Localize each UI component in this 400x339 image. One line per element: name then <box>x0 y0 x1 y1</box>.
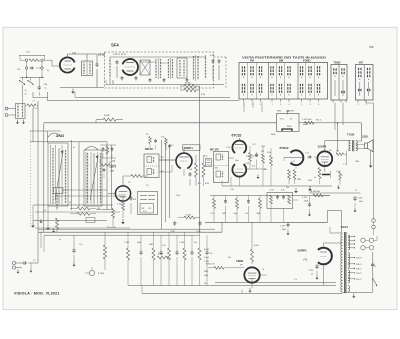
svg-text:125 V: 125 V <box>356 273 362 275</box>
svg-text:SF4: SF4 <box>111 43 119 48</box>
label TU32 <box>347 133 355 137</box>
socket pins <box>361 238 374 250</box>
svg-text:C.138: C.138 <box>280 226 285 228</box>
svg-text:6786: 6786 <box>110 171 114 173</box>
mains transformer TA34 primary <box>341 234 343 292</box>
svg-text:C5: C5 <box>44 210 46 212</box>
V2 grid cluster <box>99 145 116 178</box>
svg-text:C14: C14 <box>141 208 144 210</box>
svg-text:C.13: C.13 <box>226 147 230 149</box>
wire bottom ground bus <box>142 286 343 294</box>
tube V3 50RP1 <box>176 153 192 168</box>
resistor V3 screen <box>195 155 198 186</box>
capacitor V4 a <box>245 153 258 170</box>
label 6.3V <box>210 55 215 57</box>
svg-text:RETRO: RETRO <box>288 111 295 113</box>
svg-text:6,3V: 6,3V <box>210 55 215 57</box>
svg-text:TU32: TU32 <box>347 133 355 137</box>
tube V4a 6TC32 triode <box>232 141 246 153</box>
gang frame 1 <box>48 143 68 206</box>
wire bus heater <box>75 92 230 97</box>
svg-text:50μf: 50μf <box>359 201 363 203</box>
ground gang 1 <box>31 223 35 228</box>
ground gang 3 <box>39 219 42 223</box>
coil L9 <box>109 57 111 84</box>
svg-text:RDL 3: RDL 3 <box>316 120 321 122</box>
svg-text:CM81: CM81 <box>236 259 244 263</box>
svg-text:4.7k: 4.7k <box>143 211 146 213</box>
svg-text:530: 530 <box>97 208 100 210</box>
label FONO <box>303 59 311 63</box>
svg-text:C6: C6 <box>69 202 71 204</box>
svg-text:B.9: B.9 <box>146 134 149 136</box>
label TA34 <box>341 225 348 229</box>
svg-text:4.7k: 4.7k <box>211 213 214 215</box>
loop coil arc 1 <box>48 133 61 137</box>
svg-text:C4: C4 <box>104 150 106 152</box>
svg-text:C.148: C.148 <box>124 242 129 244</box>
tube V2 12E4 <box>115 186 130 201</box>
svg-text:50RP1: 50RP1 <box>298 249 308 253</box>
svg-text:2a: 2a <box>45 88 47 90</box>
svg-text:C8: C8 <box>99 161 101 163</box>
wire gang link top <box>30 131 107 142</box>
resistor R heater 2 <box>180 88 200 92</box>
wire fono drops <box>244 102 262 112</box>
tube V5 6TD32 triode <box>291 150 304 165</box>
wire ant drop <box>22 84 26 103</box>
svg-text:1k: 1k <box>314 177 316 179</box>
FM tuner dashed enclosure SF4 <box>105 52 227 88</box>
resistor V4 b <box>261 147 264 186</box>
svg-text:C.9: C.9 <box>294 279 297 281</box>
label MF19 <box>145 147 153 151</box>
svg-text:C.12: C.12 <box>305 153 309 155</box>
transformer taps <box>348 236 362 281</box>
svg-text:V.3a: V.3a <box>204 156 207 158</box>
wire bus det top <box>210 195 330 197</box>
coil L11 pair <box>169 58 173 79</box>
svg-text:VISTA POSTERIORE DEI TASTI IN: VISTA POSTERIORE DEI TASTI IN BASSO <box>242 56 326 60</box>
resistor gang v <box>112 208 115 226</box>
label page number 769 <box>369 45 374 49</box>
resistor v5 anode 1 <box>288 170 291 185</box>
phono terminal 1 <box>12 261 22 264</box>
wire rf bottom rail <box>60 87 104 89</box>
tube V1b 6T26 triode <box>123 59 139 75</box>
capacitor C148 <box>371 262 377 268</box>
resistor gang 2 <box>70 212 96 215</box>
detector RC network cluster <box>211 196 262 223</box>
label 12SF6 <box>318 145 333 153</box>
band switch inner <box>140 204 154 214</box>
tube V8 CM81 <box>244 267 259 282</box>
svg-text:3135: 3135 <box>362 135 368 139</box>
wire cm81 bottom <box>248 275 267 293</box>
label 50RP1 rect <box>298 249 308 262</box>
tube V4b 6TC32 triode <box>232 164 246 176</box>
resistor B988 <box>157 254 169 260</box>
svg-text:100k: 100k <box>261 146 265 148</box>
capacitor C920 <box>309 264 319 280</box>
label 6T26 <box>98 53 127 57</box>
capacitor C165 <box>170 221 176 233</box>
capacitor C148b <box>353 196 363 212</box>
svg-text:C.128: C.128 <box>302 197 307 199</box>
svg-text:V7b: V7b <box>303 259 308 262</box>
svg-text:B.7: B.7 <box>198 183 201 185</box>
svg-text:1MΩ: 1MΩ <box>149 244 153 246</box>
svg-text:2a: 2a <box>262 269 264 271</box>
svg-text:MF19: MF19 <box>145 147 153 151</box>
tono contacts <box>333 68 346 102</box>
band switch contacts <box>140 195 154 213</box>
svg-text:4.7Ω: 4.7Ω <box>117 204 122 206</box>
svg-text:C29 V1 6T26: C29 V1 6T26 <box>113 54 127 56</box>
wire bus b-plus right end <box>358 123 362 141</box>
svg-text:4a: 4a <box>73 147 75 149</box>
svg-text:T.T.C.: T.T.C. <box>280 119 286 121</box>
resistor V2 grid <box>131 175 148 178</box>
wire left riser 33 <box>33 108 38 142</box>
svg-text:600Ω: 600Ω <box>303 124 308 126</box>
wire transformer top link <box>330 227 343 233</box>
pushbutton table frame <box>239 63 328 100</box>
svg-text:VEDI: VEDI <box>277 111 282 113</box>
coil padder <box>56 194 58 211</box>
resistor V3 plate <box>202 155 205 186</box>
wire v5 grid line <box>284 158 303 162</box>
antenna terminal <box>5 107 15 110</box>
padder trim box <box>86 218 95 223</box>
wire v2 leads <box>108 176 131 194</box>
svg-text:3a: 3a <box>25 94 27 96</box>
svg-text:470: 470 <box>133 199 136 201</box>
resistor 450ohm <box>336 151 347 166</box>
svg-text:C11: C11 <box>161 157 164 159</box>
ground V2 <box>121 219 125 224</box>
svg-text:R.905 4.7k: R.905 4.7k <box>206 264 215 266</box>
label CM81 <box>236 259 244 267</box>
wire bus long right <box>205 211 342 234</box>
pushbutton table ticks <box>243 99 320 106</box>
wire row3 <box>20 69 44 78</box>
wire v2 link <box>96 209 113 211</box>
earth terminal <box>5 114 15 117</box>
svg-text:450: 450 <box>336 151 339 153</box>
svg-text:25a: 25a <box>264 169 267 171</box>
capacitor C31 <box>212 59 215 80</box>
svg-text:140 V: 140 V <box>356 269 362 271</box>
wire bus upper <box>33 92 239 101</box>
wire v3 leads <box>159 147 184 176</box>
wire gang verticals <box>38 101 112 232</box>
svg-text:7000: 7000 <box>355 161 359 163</box>
wire v4 mid <box>246 169 266 179</box>
wire fm bottom rail <box>106 80 224 85</box>
wire bus through vedi <box>299 122 361 124</box>
wire antenna top <box>19 55 45 60</box>
label 6TD32 <box>280 146 289 150</box>
coil L10 pair <box>140 60 150 75</box>
resistor CM81 top <box>251 222 254 264</box>
svg-text:1a: 1a <box>59 239 61 241</box>
wire tono drops <box>335 103 343 131</box>
svg-text:4.7k: 4.7k <box>252 166 255 168</box>
mains transformer TA34 secondaries <box>348 235 350 292</box>
svg-text:220 V: 220 V <box>356 258 362 260</box>
capacitor C40 <box>38 77 48 95</box>
tube V7 50RP1 rectifier <box>318 248 332 265</box>
ground ant 1 <box>16 120 19 125</box>
label VISIOLA <box>14 292 60 296</box>
svg-text:VISIOLA - MOD. VL3021: VISIOLA - MOD. VL3021 <box>14 292 60 296</box>
wire v4 leads <box>229 138 259 180</box>
resistor R905 <box>206 264 244 270</box>
capacitor v6 dark <box>322 171 331 178</box>
coil osc bar 1 <box>52 148 54 204</box>
capacitor C41 <box>96 62 99 88</box>
svg-text:C.148: C.148 <box>204 261 209 263</box>
wire gang bottom links <box>33 205 48 225</box>
svg-text:C.155: C.155 <box>245 163 250 165</box>
label AF33 <box>56 134 64 138</box>
svg-text:6T26: 6T26 <box>98 53 105 57</box>
svg-text:470k: 470k <box>308 180 312 182</box>
ground gang 2 <box>46 225 50 230</box>
coil L13 <box>205 55 207 78</box>
wire hv vertical <box>372 252 374 292</box>
wire fm box bottom caps <box>113 76 188 84</box>
wire gang bottom b <box>33 219 107 221</box>
svg-text:1k: 1k <box>109 162 111 164</box>
int contacts <box>357 68 370 106</box>
resistor V2 cathode <box>117 201 125 218</box>
output transformer TU32 <box>349 140 358 151</box>
svg-text:470k: 470k <box>267 152 271 154</box>
coil osc bar 3 <box>87 153 89 204</box>
wire fm internal top <box>110 57 206 63</box>
label 62 ohm <box>185 83 191 85</box>
svg-text:25a: 25a <box>204 283 207 285</box>
label 50RP1 <box>183 145 201 150</box>
capacitor C30 <box>116 60 119 78</box>
wire bus b-plus <box>44 122 277 124</box>
resistor v5 anode 2 <box>286 170 296 190</box>
label FM <box>250 59 254 63</box>
wire bus long 232 <box>38 222 222 232</box>
wire speaker gnd <box>369 151 373 168</box>
svg-text:4.7k: 4.7k <box>245 213 248 215</box>
svg-text:50μF: 50μF <box>234 213 238 215</box>
label vista posteriore <box>242 56 326 60</box>
resistor bl volume <box>98 232 107 275</box>
wire transformer bottom <box>343 293 373 299</box>
misc value labels <box>17 69 359 281</box>
svg-text:B.7368: B.7368 <box>98 273 104 275</box>
wire rf top <box>68 54 98 62</box>
svg-text:3a: 3a <box>47 70 49 72</box>
svg-text:C9: C9 <box>128 182 130 184</box>
loop coil arc 2 <box>85 147 98 151</box>
svg-text:5: 5 <box>357 104 358 106</box>
svg-text:C10: C10 <box>170 145 173 147</box>
label 12a C916 <box>107 227 117 229</box>
svg-text:4.7k: 4.7k <box>281 190 284 192</box>
wire dial dotted <box>30 131 32 229</box>
svg-text:6TD32: 6TD32 <box>280 146 289 150</box>
svg-text:C.12: C.12 <box>291 161 295 163</box>
tono switch frame <box>331 65 347 101</box>
svg-text:25a: 25a <box>228 257 231 259</box>
ground gang 4 <box>52 229 55 233</box>
wire mains right <box>374 236 377 240</box>
svg-text:110 V: 110 V <box>356 279 362 281</box>
tube V1a 6T26 triode <box>60 52 77 73</box>
int switch frame <box>356 65 374 101</box>
svg-text:C40: C40 <box>17 69 20 71</box>
tube V6 12SF5 <box>317 151 332 166</box>
resistor R heater 1 <box>180 84 200 88</box>
wire ant to rf <box>45 60 60 66</box>
svg-text:25: 25 <box>311 274 313 276</box>
resistor V4 load <box>249 146 252 169</box>
line filter row1 <box>20 59 45 62</box>
svg-text:OM: OM <box>279 59 283 63</box>
wire gang bottom a <box>33 204 113 206</box>
switch S1 contacts <box>19 77 34 85</box>
label 6TC32 <box>232 134 242 138</box>
svg-text:C.148: C.148 <box>358 198 363 200</box>
resistor 4.7k pre <box>161 137 171 151</box>
svg-text:12SF6: 12SF6 <box>318 145 327 149</box>
resistor R063 <box>178 215 200 220</box>
svg-text:6TC32: 6TC32 <box>232 134 242 138</box>
label Mia <box>236 160 240 162</box>
wire bus 229 <box>38 228 215 230</box>
resistor V4 c <box>267 148 272 186</box>
wire bottom left risers <box>41 232 44 252</box>
svg-text:C.14: C.14 <box>230 189 234 191</box>
capacitor C32 <box>218 59 221 80</box>
svg-text:TONO: TONO <box>334 62 341 65</box>
wire v6 plate <box>325 141 351 152</box>
phono terminal 2 <box>12 263 32 274</box>
svg-text:B.988: B.988 <box>158 254 163 256</box>
svg-text:B.164 1kΩ: B.164 1kΩ <box>311 191 320 193</box>
svg-text:2.2k: 2.2k <box>162 245 165 247</box>
resistor B526 <box>96 118 123 123</box>
label B526 <box>104 115 110 117</box>
wire det rail 186 <box>222 180 332 186</box>
coil L12 tall <box>194 55 199 81</box>
svg-text:470k: 470k <box>205 183 209 185</box>
svg-text:B.905: B.905 <box>254 245 259 247</box>
wire v5 bottom <box>294 165 325 193</box>
wire gang h212 <box>35 211 120 213</box>
svg-text:4.7k: 4.7k <box>161 137 164 139</box>
V3 side cluster <box>204 156 212 167</box>
resistor v6 cath <box>318 168 321 185</box>
svg-text:FONO: FONO <box>303 59 311 63</box>
svg-text:C15a: C15a <box>176 195 180 197</box>
wire heater drop <box>199 86 201 232</box>
svg-text:FM: FM <box>250 59 254 63</box>
label column left of CM81 <box>204 249 212 285</box>
mains transformer core <box>345 232 346 293</box>
thermistor box VEDI <box>277 110 300 131</box>
svg-text:1MΩ: 1MΩ <box>204 271 208 273</box>
IF transformer MF19 <box>144 154 159 178</box>
svg-text:NOR: NOR <box>287 126 292 128</box>
svg-text:160 V: 160 V <box>356 264 362 266</box>
wire switch risers <box>162 140 170 230</box>
label L10 <box>26 52 30 54</box>
label 3135 <box>362 135 368 139</box>
svg-text:B.988: B.988 <box>204 249 209 251</box>
svg-text:TA34: TA34 <box>341 225 348 229</box>
line filter row2 <box>25 61 43 69</box>
resistor padder <box>56 218 59 232</box>
capacitor C128 <box>302 196 311 217</box>
wire tone box leads <box>271 200 298 222</box>
capacitor C12 coupling <box>305 153 317 159</box>
wire rect leads <box>324 243 343 286</box>
wire gang h196 <box>55 195 125 197</box>
svg-text:C.147 50μF: C.147 50μF <box>302 119 312 121</box>
svg-text:25a: 25a <box>286 187 289 189</box>
svg-text:5: 5 <box>365 104 366 106</box>
wire bus 235 <box>44 234 200 236</box>
svg-text:2a: 2a <box>341 175 343 177</box>
svg-text:1-2: 1-2 <box>355 190 357 192</box>
svg-text:C.129: C.129 <box>269 190 274 192</box>
coil osc bar 2 <box>65 150 67 203</box>
wire mains drop right <box>366 100 374 219</box>
AM antenna coil L7 <box>16 101 36 119</box>
svg-text:C.1: C.1 <box>343 164 346 166</box>
svg-text:17a: 17a <box>72 52 77 55</box>
AF coupling RC cluster <box>127 232 209 285</box>
label V2 12E4 <box>109 160 116 173</box>
band switch frame <box>138 192 158 215</box>
mains switch lever <box>372 278 377 286</box>
pre MF19 parts <box>146 134 157 150</box>
gang frame 2 <box>84 150 102 206</box>
svg-text:C.47: C.47 <box>252 144 256 146</box>
ground ant 2 <box>22 120 25 125</box>
svg-text:C15: C15 <box>148 208 151 210</box>
svg-text:769: 769 <box>369 45 374 49</box>
coil osc bar 4 <box>100 153 102 204</box>
padder box <box>54 188 64 194</box>
capacitor C138 <box>280 222 290 235</box>
label OM <box>279 59 283 63</box>
label B164 <box>311 191 320 193</box>
capacitor L340 <box>336 171 343 189</box>
capacitor V2 <box>130 196 133 214</box>
svg-text:12a C916: 12a C916 <box>107 227 117 229</box>
label MF29 <box>210 148 219 152</box>
svg-text:1a: 1a <box>25 90 27 92</box>
wire gang h190 <box>62 189 107 191</box>
svg-text:C7a: C7a <box>79 244 82 246</box>
wire bus 282 <box>215 281 336 283</box>
svg-text:25a: 25a <box>261 151 264 153</box>
svg-text:MF 270: MF 270 <box>210 148 219 152</box>
svg-text:25a: 25a <box>194 242 197 244</box>
pushbutton contact columns <box>242 63 320 100</box>
